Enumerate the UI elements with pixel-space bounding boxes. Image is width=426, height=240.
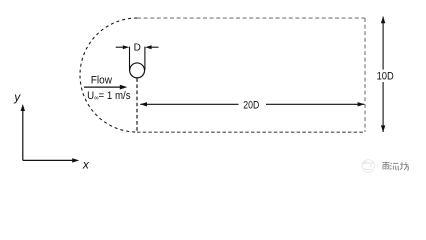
10D dimension line bottom segment	[382, 82, 384, 132]
svg-text:10D: 10D	[377, 71, 394, 83]
x axis	[23, 159, 74, 161]
watermark character 3 (lane)	[400, 162, 408, 170]
svg-text:20D: 20D	[243, 100, 259, 112]
domain bottom boundary (dashed)	[137, 131, 365, 133]
20D left arrowhead	[140, 102, 147, 106]
D dimension right arrow	[151, 46, 159, 48]
10D bottom arrowhead	[381, 125, 385, 132]
svg-text:y: y	[13, 90, 21, 104]
domain right boundary (dashed)	[364, 18, 366, 132]
cylinder	[130, 63, 145, 78]
watermark logo circle	[362, 160, 375, 173]
svg-text:Flow: Flow	[91, 75, 113, 87]
Flow arrow	[84, 86, 122, 88]
10D dimension line top segment	[382, 17, 384, 70]
20D dimension line left segment	[140, 103, 238, 105]
watermark character 2 (flow)	[390, 163, 399, 170]
20D dimension line right segment	[266, 103, 364, 105]
domain inlet arc (dashed semicircle)	[80, 18, 137, 132]
D dimension extension line left	[129, 47, 131, 70]
y axis	[22, 109, 24, 160]
svg-text:D: D	[134, 43, 141, 54]
10D top arrowhead	[381, 16, 385, 23]
svg-text:x: x	[82, 158, 90, 172]
20D right arrowhead	[358, 102, 365, 106]
domain top boundary (dashed)	[137, 17, 365, 19]
D dimension extension line right	[144, 47, 146, 70]
inlet plane dashed line (below cylinder)	[136, 78, 138, 132]
watermark character 1 (rain)	[382, 163, 389, 170]
D dimension left arrow	[116, 46, 124, 48]
svg-text:U∞= 1 m/s: U∞= 1 m/s	[87, 89, 130, 102]
